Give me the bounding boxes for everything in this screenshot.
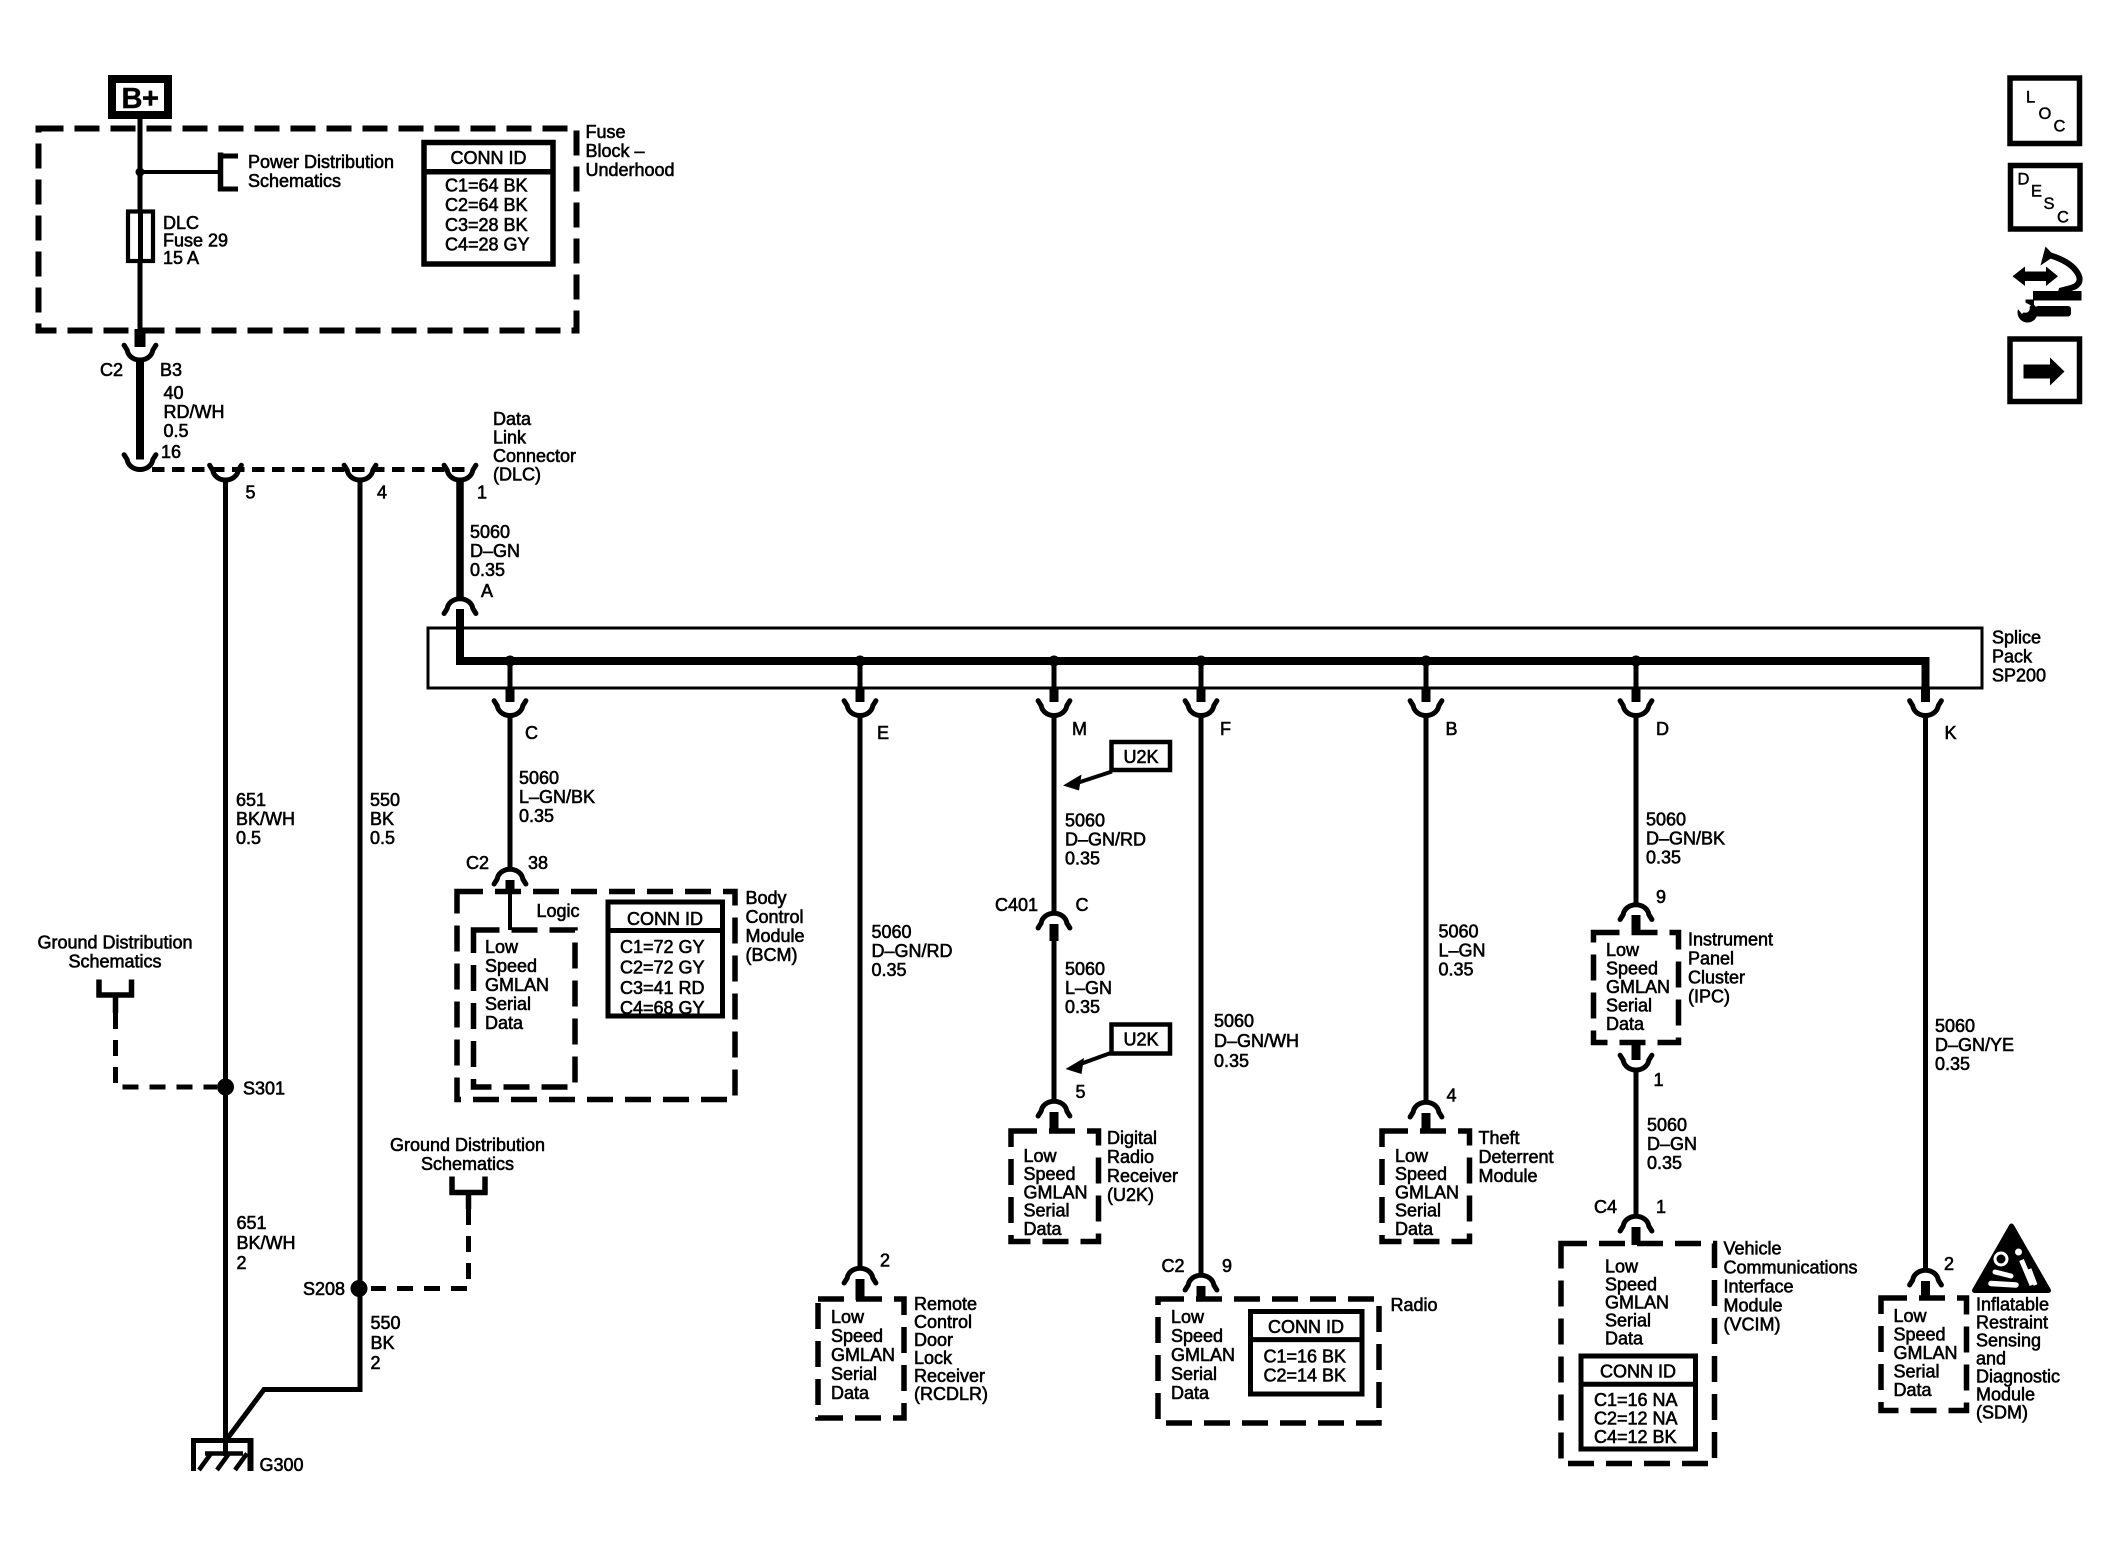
svg-text:651: 651: [236, 790, 266, 810]
svg-text:Low: Low: [831, 1307, 865, 1327]
wire stub below fuse block: [135, 329, 146, 347]
connector splice D: [1620, 701, 1652, 716]
svg-text:BK/WH: BK/WH: [237, 1233, 296, 1253]
connector RCDLR pin 2: [844, 1268, 876, 1283]
label Data Link Connector (DLC): [493, 409, 576, 485]
icon DESC box: [2011, 166, 2081, 230]
svg-text:Inflatable: Inflatable: [1976, 1295, 2049, 1315]
svg-text:C1=16 BK: C1=16 BK: [1264, 1347, 1347, 1367]
svg-text:and: and: [1976, 1349, 2006, 1369]
node S301: [217, 1079, 234, 1096]
svg-text:0.35: 0.35: [1439, 960, 1474, 980]
module VCIM dashed box: [1561, 1244, 1715, 1464]
svg-text:C1=16 NA: C1=16 NA: [1594, 1390, 1678, 1410]
module RCDLR dashed box: [818, 1299, 904, 1418]
wire splice drop C: [508, 661, 513, 688]
svg-text:5060: 5060: [1439, 922, 1479, 942]
conn id table VCIM: [1581, 1356, 1696, 1449]
label circuit 5060 L-GN 0.35 (B): [1439, 922, 1486, 980]
svg-text:C2: C2: [466, 853, 489, 873]
svg-text:Data: Data: [1395, 1219, 1434, 1239]
label Fuse Block - Underhood: [586, 122, 675, 180]
wire splice drop M: [1052, 661, 1057, 688]
wire stub into Theft module: [1422, 1113, 1431, 1132]
svg-text:5060: 5060: [1646, 809, 1686, 829]
module SDM dashed box: [1881, 1298, 1967, 1411]
svg-text:Body: Body: [746, 888, 787, 908]
connector C2 pin 9 Radio: [1185, 1275, 1217, 1290]
svg-text:S301: S301: [243, 1079, 285, 1099]
svg-text:BK: BK: [371, 1333, 395, 1353]
node splice B: [1421, 656, 1432, 667]
label circuit 5060 D-GN/BK 0.35 (D): [1646, 809, 1725, 867]
svg-text:550: 550: [370, 790, 400, 810]
svg-text:GMLAN: GMLAN: [485, 975, 549, 995]
wire splice drop D: [1634, 661, 1639, 688]
svg-text:Speed: Speed: [1024, 1164, 1076, 1184]
svg-text:Data: Data: [1171, 1383, 1210, 1403]
svg-text:1: 1: [477, 483, 487, 503]
wire E branch to RCDLR: [858, 717, 863, 1268]
label circuit 5060 D-GN 0.35 (D lower): [1647, 1115, 1697, 1173]
svg-text:C: C: [525, 723, 538, 743]
svg-text:2: 2: [1944, 1254, 1954, 1274]
svg-text:Communications: Communications: [1724, 1258, 1858, 1278]
connector splice A: [444, 599, 476, 614]
svg-text:(DLC): (DLC): [493, 465, 541, 485]
svg-text:C401: C401: [995, 895, 1038, 915]
svg-text:M: M: [1072, 719, 1087, 739]
svg-text:B+: B+: [122, 83, 159, 115]
wire D branch to IPC: [1634, 717, 1639, 904]
svg-text:D–GN/RD: D–GN/RD: [872, 941, 953, 961]
label Low Speed GMLAN Serial Data (RCDLR): [831, 1307, 895, 1403]
svg-text:Data: Data: [493, 409, 532, 429]
svg-text:D: D: [1656, 719, 1669, 739]
svg-text:Instrument: Instrument: [1688, 930, 1773, 950]
svg-text:GMLAN: GMLAN: [1606, 977, 1670, 997]
svg-text:S: S: [2044, 195, 2055, 213]
svg-text:C3=41 RD: C3=41 RD: [620, 978, 705, 998]
svg-text:L–GN: L–GN: [1439, 941, 1486, 961]
svg-text:Low: Low: [1894, 1306, 1928, 1326]
svg-text:CONN ID: CONN ID: [1268, 1317, 1344, 1337]
svg-text:Speed: Speed: [1606, 959, 1658, 979]
svg-text:C2: C2: [1161, 1256, 1184, 1276]
svg-text:Serial: Serial: [1606, 996, 1652, 1016]
svg-text:Receiver: Receiver: [914, 1366, 985, 1386]
svg-text:Digital: Digital: [1107, 1128, 1157, 1148]
svg-text:Underhood: Underhood: [586, 160, 675, 180]
label circuit 5060 L-GN 0.35 (M lower): [1065, 959, 1112, 1017]
svg-text:BK: BK: [370, 809, 394, 829]
svg-text:BK/WH: BK/WH: [236, 809, 295, 829]
wire splice drop F: [1199, 661, 1204, 688]
svg-text:Speed: Speed: [1894, 1325, 1946, 1345]
svg-text:D–GN/BK: D–GN/BK: [1646, 828, 1725, 848]
svg-text:5060: 5060: [1065, 811, 1105, 831]
icon connector repair double arrow: [2013, 267, 2059, 287]
wire splice bus SP200: [460, 609, 1926, 688]
svg-text:C4=12 BK: C4=12 BK: [1594, 1427, 1677, 1447]
wire stub below C401: [1050, 924, 1059, 941]
svg-text:Splice: Splice: [1992, 628, 2041, 648]
connector splice M: [1038, 701, 1070, 716]
svg-text:0.5: 0.5: [370, 828, 395, 848]
svg-text:C: C: [2057, 209, 2069, 227]
svg-text:4: 4: [1447, 1086, 1457, 1106]
label Vehicle Communications Interface Module (VCIM): [1724, 1239, 1858, 1335]
connector DLC pin 5: [210, 465, 242, 480]
wire fuse to connector C2: [138, 261, 143, 330]
svg-text:Module: Module: [746, 926, 805, 946]
svg-text:Serial: Serial: [1395, 1201, 1441, 1221]
svg-text:L–GN/BK: L–GN/BK: [519, 787, 595, 807]
svg-text:5060: 5060: [1214, 1011, 1254, 1031]
label circuit 5060 D-GN/RD 0.35 (E): [872, 922, 953, 980]
label Splice Pack SP200: [1992, 628, 2046, 686]
node splice E: [855, 656, 866, 667]
svg-text:Lock: Lock: [914, 1348, 953, 1368]
svg-text:U2K: U2K: [1123, 747, 1158, 767]
svg-text:Data: Data: [1606, 1014, 1645, 1034]
connector IPC pin 9: [1620, 905, 1652, 920]
svg-text:Low: Low: [1605, 1257, 1639, 1277]
svg-text:U2K: U2K: [1123, 1030, 1158, 1050]
svg-text:G300: G300: [260, 1455, 304, 1475]
conn id table Radio: [1251, 1312, 1363, 1395]
svg-text:1: 1: [1656, 1197, 1666, 1217]
svg-text:Deterrent: Deterrent: [1479, 1147, 1554, 1167]
module U2K dashed box: [1011, 1131, 1099, 1242]
svg-text:Receiver: Receiver: [1107, 1166, 1178, 1186]
svg-text:2: 2: [880, 1251, 890, 1271]
label Ground Distribution Schematics (right): [390, 1135, 545, 1174]
wire stub into BCM: [506, 880, 515, 893]
svg-text:Data: Data: [831, 1383, 870, 1403]
label Instrument Panel Cluster (IPC): [1688, 930, 1773, 1007]
svg-text:0.35: 0.35: [1065, 997, 1100, 1017]
label DLC Fuse 29 15 A: [163, 213, 228, 268]
svg-text:C2=64 BK: C2=64 BK: [445, 195, 528, 215]
svg-text:Serial: Serial: [831, 1364, 877, 1384]
connector C401 pin C: [1038, 913, 1070, 928]
wire splice drop E: [858, 661, 863, 688]
svg-text:C: C: [2054, 118, 2066, 136]
svg-text:Interface: Interface: [1724, 1277, 1794, 1297]
label circuit 5060 L-GN/BK 0.35: [519, 768, 595, 826]
svg-text:C2: C2: [100, 360, 123, 380]
svg-text:550: 550: [371, 1313, 401, 1333]
svg-text:C1=72 GY: C1=72 GY: [620, 937, 705, 957]
svg-text:Speed: Speed: [1605, 1275, 1657, 1295]
wire stub into IPC: [1632, 915, 1641, 934]
svg-text:(U2K): (U2K): [1107, 1185, 1154, 1205]
svg-text:C3=28 BK: C3=28 BK: [445, 215, 528, 235]
wire B+ to fuse: [138, 115, 143, 213]
label circuit 651 BK/WH 0.5: [236, 790, 295, 848]
svg-text:L–GN: L–GN: [1065, 978, 1112, 998]
svg-text:CONN ID: CONN ID: [451, 148, 527, 168]
wire dashed to S301: [116, 1013, 218, 1087]
svg-text:Data: Data: [1024, 1219, 1063, 1239]
svg-text:Schematics: Schematics: [68, 952, 161, 972]
svg-text:CONN ID: CONN ID: [627, 909, 703, 929]
svg-text:Schematics: Schematics: [421, 1154, 514, 1174]
label Low Speed GMLAN Serial Data (Theft): [1395, 1146, 1459, 1239]
label Low Speed GMLAN Serial Data (VCIM): [1605, 1257, 1669, 1349]
svg-text:L: L: [2026, 89, 2035, 107]
label Remote Control Door Lock Receiver (RCDLR): [914, 1294, 988, 1404]
label circuit 5060 D-GN/WH 0.35 (F): [1214, 1011, 1299, 1071]
svg-text:Serial: Serial: [1024, 1201, 1070, 1221]
wire DLC pin 4 to S208/G300 (550 BK): [226, 482, 361, 1442]
svg-text:C4: C4: [1594, 1197, 1617, 1217]
svg-text:0.35: 0.35: [872, 960, 907, 980]
wire stub out of IPC: [1632, 1041, 1641, 1060]
wire 40 RD/WH: [136, 362, 144, 460]
svg-text:F: F: [1220, 719, 1231, 739]
svg-text:5060: 5060: [470, 522, 510, 542]
svg-text:C: C: [1076, 895, 1089, 915]
node splice F: [1196, 656, 1207, 667]
svg-text:Fuse: Fuse: [586, 122, 626, 142]
svg-text:0.35: 0.35: [1935, 1054, 1970, 1074]
svg-text:D–GN: D–GN: [470, 541, 520, 561]
svg-text:5060: 5060: [872, 922, 912, 942]
label Body Control Module (BCM): [746, 888, 805, 965]
wire B branch to Theft module: [1424, 717, 1429, 1102]
svg-text:Link: Link: [493, 428, 527, 448]
svg-text:Radio: Radio: [1391, 1295, 1438, 1315]
svg-text:9: 9: [1222, 1256, 1232, 1276]
wire power distribution tap: [140, 170, 221, 174]
svg-text:SP200: SP200: [1992, 666, 2046, 686]
label Low Speed GMLAN Serial Data (SDM): [1894, 1306, 1958, 1400]
svg-text:(BCM): (BCM): [746, 945, 798, 965]
label Theft Deterrent Module: [1479, 1128, 1554, 1186]
svg-text:Speed: Speed: [485, 956, 537, 976]
svg-text:0.35: 0.35: [1647, 1153, 1682, 1173]
node splice M: [1049, 656, 1060, 667]
wire stub into Radio: [1197, 1286, 1206, 1300]
connector DLC pin 16: [124, 455, 156, 470]
module Theft dashed box: [1382, 1131, 1470, 1242]
BCM inner dashed box: [474, 930, 576, 1087]
svg-text:1: 1: [1654, 1070, 1664, 1090]
svg-text:15 A: 15 A: [163, 248, 199, 268]
svg-text:GMLAN: GMLAN: [831, 1345, 895, 1365]
svg-text:D–GN/YE: D–GN/YE: [1935, 1035, 2014, 1055]
module IPC dashed box: [1594, 933, 1679, 1043]
ground G300: [191, 1438, 254, 1471]
svg-text:(RCDLR): (RCDLR): [914, 1384, 988, 1404]
svg-text:Control: Control: [746, 907, 804, 927]
svg-text:2: 2: [371, 1353, 381, 1373]
connector IPC pin 1 lower: [1620, 1055, 1652, 1070]
connector splice B: [1410, 701, 1442, 716]
svg-text:Speed: Speed: [1395, 1164, 1447, 1184]
svg-text:(SDM): (SDM): [1976, 1403, 2028, 1423]
svg-text:5: 5: [1076, 1082, 1086, 1102]
label circuit 651 BK/WH 2: [237, 1213, 296, 1273]
svg-text:Low: Low: [1024, 1146, 1058, 1166]
svg-text:Radio: Radio: [1107, 1147, 1154, 1167]
B+ power symbol: [112, 79, 168, 115]
svg-text:Schematics: Schematics: [248, 171, 341, 191]
label circuit 5060 D-GN 0.35 (A wire): [470, 522, 520, 580]
svg-text:Logic: Logic: [537, 901, 580, 921]
icon connector outline curved arrow: [2033, 247, 2082, 301]
svg-text:5060: 5060: [1647, 1115, 1687, 1135]
svg-text:C4=28 GY: C4=28 GY: [445, 235, 530, 255]
svg-text:16: 16: [161, 442, 181, 462]
svg-text:D–GN/WH: D–GN/WH: [1214, 1031, 1299, 1051]
node S208: [351, 1280, 368, 1297]
svg-text:D: D: [2018, 171, 2030, 189]
connector splice C: [494, 701, 526, 716]
svg-text:Theft: Theft: [1479, 1128, 1520, 1148]
svg-text:Module: Module: [1479, 1166, 1538, 1186]
svg-text:5060: 5060: [519, 768, 559, 788]
module BCM dashed box: [457, 892, 735, 1100]
svg-text:Power Distribution: Power Distribution: [248, 152, 394, 172]
svg-text:Speed: Speed: [1171, 1326, 1223, 1346]
wire DLC pin 5 to G300 (651 BK/WH): [223, 482, 228, 1457]
svg-text:C4=68 GY: C4=68 GY: [620, 998, 705, 1018]
label Ground Distribution Schematics (left): [37, 933, 192, 972]
U2K callout box 2: [1112, 1025, 1171, 1054]
svg-text:9: 9: [1656, 887, 1666, 907]
svg-text:O: O: [2039, 105, 2052, 123]
node power tap junction: [136, 168, 145, 177]
svg-text:C1=64 BK: C1=64 BK: [445, 176, 528, 196]
svg-text:0.35: 0.35: [1214, 1051, 1249, 1071]
connector DLC pin 1: [444, 465, 476, 480]
connector splice E: [844, 701, 876, 716]
fuse F29 symbol: [128, 212, 153, 262]
svg-text:0.35: 0.35: [519, 806, 554, 826]
svg-text:Low: Low: [1395, 1146, 1429, 1166]
svg-text:GMLAN: GMLAN: [1605, 1293, 1669, 1313]
svg-text:Low: Low: [1606, 940, 1640, 960]
svg-text:Panel: Panel: [1688, 949, 1734, 969]
svg-text:Block –: Block –: [586, 141, 645, 161]
svg-text:Data: Data: [485, 1013, 524, 1033]
label Low Speed GMLAN Serial Data (U2K): [1024, 1146, 1088, 1239]
svg-text:40: 40: [164, 383, 184, 403]
svg-text:Vehicle: Vehicle: [1724, 1239, 1782, 1259]
label Low Speed GMLAN Serial Data (BCM): [485, 937, 549, 1033]
svg-text:Low: Low: [1171, 1307, 1205, 1327]
svg-text:Module: Module: [1976, 1385, 2035, 1405]
svg-text:S208: S208: [303, 1279, 345, 1299]
wire stub into U2K module: [1050, 1112, 1059, 1132]
label Low Speed GMLAN Serial Data (Radio): [1171, 1307, 1235, 1403]
svg-text:2: 2: [237, 1253, 247, 1273]
wire K branch to SDM: [1923, 717, 1928, 1270]
connector C2 pin 38 BCM: [494, 869, 526, 884]
svg-text:A: A: [481, 581, 493, 601]
svg-text:Speed: Speed: [831, 1326, 883, 1346]
wire IPC to VCIM: [1634, 1072, 1639, 1216]
label Low Speed GMLAN Serial Data (IPC): [1606, 940, 1670, 1034]
label circuit 5060 D-GN/RD 0.35 (M upper): [1065, 811, 1146, 869]
svg-text:5: 5: [246, 483, 256, 503]
svg-text:0.35: 0.35: [1646, 847, 1681, 867]
connector C4 pin 1 VCIM: [1620, 1216, 1652, 1231]
label circuit 40 RD/WH 0.5: [164, 383, 225, 441]
svg-text:Low: Low: [485, 937, 519, 957]
svg-text:E: E: [2031, 183, 2042, 201]
wire stub into RCDLR: [856, 1279, 865, 1300]
svg-text:B3: B3: [160, 360, 182, 380]
label circuit 5060 D-GN/YE 0.35 (K): [1935, 1016, 2014, 1074]
svg-text:Serial: Serial: [1171, 1364, 1217, 1384]
svg-text:GMLAN: GMLAN: [1894, 1343, 1958, 1363]
svg-text:RD/WH: RD/WH: [164, 402, 225, 422]
wire DLC pin1 to splice A: [456, 482, 464, 598]
svg-text:C2=72 GY: C2=72 GY: [620, 958, 705, 978]
node splice D: [1631, 656, 1642, 667]
label circuit 550 BK 2: [371, 1313, 401, 1373]
icon wrench: [2015, 299, 2072, 323]
conn id table fuse block: [424, 143, 553, 265]
ground distribution bracket right: [450, 1177, 488, 1210]
svg-text:5060: 5060: [1935, 1016, 1975, 1036]
wire U2K arrow 1: [1063, 772, 1112, 791]
connector DLC pin 4: [344, 465, 376, 480]
svg-text:Serial: Serial: [1605, 1311, 1651, 1331]
power distribution bracket: [219, 153, 238, 192]
ground distribution bracket left: [97, 980, 135, 1014]
svg-text:Remote: Remote: [914, 1294, 977, 1314]
svg-text:E: E: [877, 723, 889, 743]
svg-text:(IPC): (IPC): [1688, 987, 1730, 1007]
svg-text:0.5: 0.5: [236, 828, 261, 848]
wire dashed to S208: [371, 1209, 469, 1289]
svg-text:651: 651: [237, 1213, 267, 1233]
svg-text:Serial: Serial: [1894, 1362, 1940, 1382]
svg-text:GMLAN: GMLAN: [1171, 1345, 1235, 1365]
svg-text:5060: 5060: [1065, 959, 1105, 979]
wire splice drop K: [1921, 688, 1930, 702]
svg-text:D–GN/RD: D–GN/RD: [1065, 830, 1146, 850]
svg-text:0.5: 0.5: [164, 421, 189, 441]
svg-text:Module: Module: [1724, 1296, 1783, 1316]
svg-text:D–GN: D–GN: [1647, 1134, 1697, 1154]
connector Theft pin 4: [1410, 1102, 1442, 1117]
svg-text:GMLAN: GMLAN: [1395, 1182, 1459, 1202]
svg-text:Data: Data: [1894, 1380, 1933, 1400]
wire splice drop B: [1424, 661, 1429, 688]
svg-text:C2=14 BK: C2=14 BK: [1264, 1366, 1347, 1386]
label Power Distribution Schematics: [248, 152, 394, 191]
svg-text:0.35: 0.35: [470, 560, 505, 580]
SDM airbag warning triangle: [1975, 1226, 2049, 1291]
label circuit 550 BK 0.5: [370, 790, 400, 848]
node splice C: [505, 656, 516, 667]
module Radio dashed box: [1158, 1299, 1379, 1423]
wire DLC dashed internal bus: [152, 467, 474, 472]
wire F branch to Radio: [1199, 717, 1204, 1275]
svg-text:Serial: Serial: [485, 994, 531, 1014]
wire M branch upper: [1052, 717, 1057, 913]
label Digital Radio Receiver (U2K): [1107, 1128, 1178, 1205]
fuse block underhood dashed box: [39, 129, 577, 331]
wire stub into SDM: [1921, 1281, 1930, 1299]
wire C branch to BCM: [508, 717, 513, 869]
